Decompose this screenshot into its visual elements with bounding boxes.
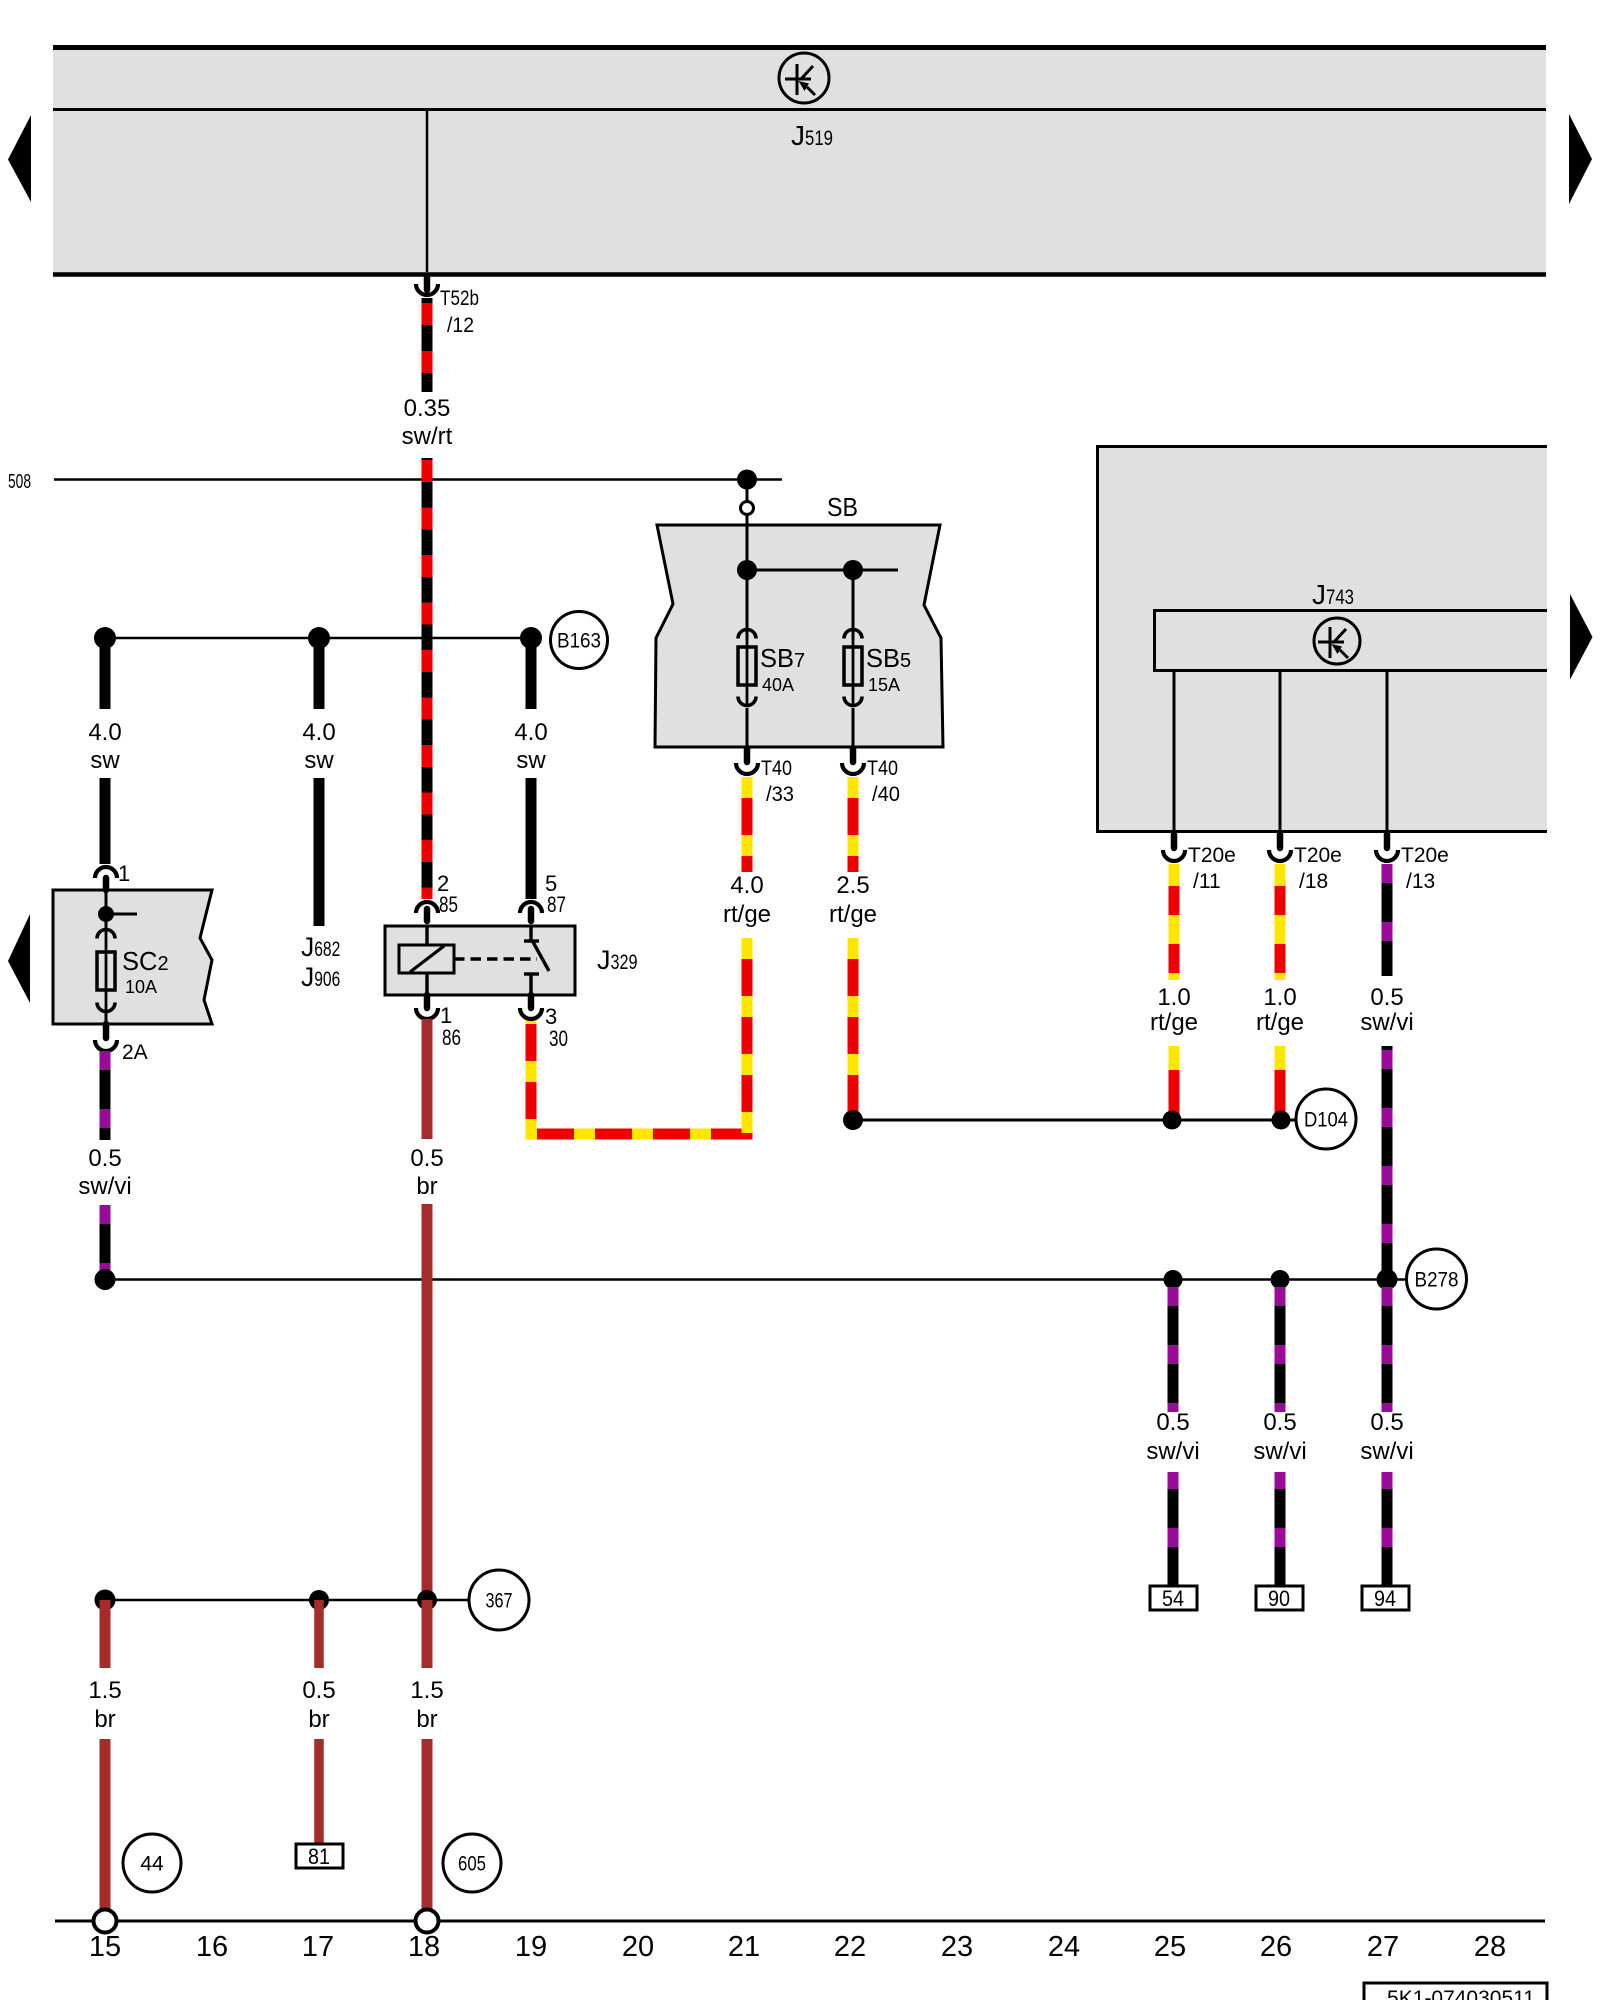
bus/continuation symbol in J743 [1314,618,1360,664]
svg-text:/33: /33 [766,783,794,806]
node 367 wire [105,1599,469,1602]
svg-text:54: 54 [1162,1586,1184,1611]
pin 3/30 connector of J329 [528,995,535,1008]
wire 1.0 rt/ge pin 18 lower segment [1275,1046,1286,1120]
wire 1.5 br (left) lower segment [100,1739,111,1910]
svg-text:0.5: 0.5 [302,1677,335,1704]
svg-text:21: 21 [728,1931,760,1963]
node 508 wire [54,478,782,481]
svg-text:rt/ge: rt/ge [829,901,877,928]
internal wire J743 pin 18 [1279,672,1282,833]
svg-text:0.5: 0.5 [88,1145,121,1172]
ground designation circle 605 [443,1834,501,1892]
svg-text:D104: D104 [1304,1108,1348,1131]
fuse panel SB (torn-edge box) [655,525,943,747]
inner unit bar of J743 [1153,609,1547,672]
svg-text:15: 15 [89,1931,121,1963]
svg-text:0.5: 0.5 [1370,984,1403,1011]
wire SB5 fuse to box edge [852,708,855,749]
fuse SB5 15A [852,628,855,707]
svg-text:1: 1 [118,861,130,886]
relay actuation dashed link [454,957,537,960]
svg-text:20: 20 [622,1931,654,1963]
svg-text:87: 87 [547,892,566,917]
svg-text:B163: B163 [557,629,601,652]
wire 4.0 sw (right) upper segment [526,638,537,709]
svg-text:85: 85 [439,892,458,917]
terminal box 54 [1150,1586,1197,1610]
relay switch contact [529,926,532,941]
svg-text:367: 367 [486,1589,513,1612]
svg-text:sw/vi: sw/vi [1253,1438,1306,1465]
connection point (open circle) [741,502,754,515]
wire 0.5 sw/vi pin 13 upper segment [1382,864,1393,976]
svg-text:0.5: 0.5 [410,1145,443,1172]
svg-text:94: 94 [1374,1586,1396,1611]
svg-text:1.5: 1.5 [410,1677,443,1704]
node circle D104 [1296,1089,1356,1149]
svg-text:18: 18 [408,1931,440,1963]
wire 0.5 sw/vi to terminal 54 lower [1168,1472,1179,1586]
wire 4.0 sw (left) upper segment [100,638,111,709]
bus/continuation symbol in J519 [779,53,829,103]
svg-text:2A: 2A [122,1041,148,1064]
wire 0.35 sw/rt lower segment [422,458,433,899]
svg-text:sw/vi: sw/vi [1360,1009,1413,1036]
bus rail inside SB [746,525,749,640]
junction B278 left [95,1269,116,1290]
svg-text:/12: /12 [447,314,474,337]
svg-text:1.0: 1.0 [1263,984,1296,1011]
wire 0.5 br lower segment [422,1204,433,1600]
svg-text:T40: T40 [761,757,792,780]
svg-text:4.0: 4.0 [514,719,547,746]
svg-text:br: br [416,1706,437,1733]
wire 4.0 sw (middle) upper segment [314,638,325,709]
wire 1.5 br (right) upper segment [422,1600,433,1668]
svg-text:0.35: 0.35 [404,395,451,422]
junction on node 508 [737,470,757,490]
junction D104 pin18 wire [1272,1111,1291,1130]
connector T40/40 [850,748,857,762]
wire 0.5 sw/vi pin 13 middle segment [1382,1046,1393,1280]
connector T20e/13 [1384,834,1391,848]
svg-text:90: 90 [1268,1586,1290,1611]
svg-text:rt/ge: rt/ge [1150,1009,1198,1036]
svg-text:sw: sw [516,747,546,774]
connector T20e/11 [1171,834,1178,848]
wire 0.5 sw/vi (left) lower segment [100,1205,111,1280]
svg-text:sw/vi: sw/vi [1146,1438,1199,1465]
svg-text:19: 19 [515,1931,547,1963]
diagram number plate 5K1-074030511 [1364,1983,1547,2000]
svg-text:rt/ge: rt/ge [723,901,771,928]
junction 367 right [417,1590,437,1610]
svg-text:br: br [94,1706,115,1733]
svg-text:1.5: 1.5 [88,1677,121,1704]
node B278 wire [105,1278,1407,1281]
pin 2/85 connector of J329 [416,902,438,913]
node D104 wire [853,1119,1296,1122]
svg-text:5K1-074030511: 5K1-074030511 [1387,1987,1535,2000]
terminal box 90 [1256,1586,1303,1610]
svg-text:15A: 15A [868,675,900,695]
connector T20e/18 [1277,834,1284,848]
svg-text:0.5: 0.5 [1156,1409,1189,1436]
svg-text:sw: sw [90,747,120,774]
svg-text:17: 17 [302,1931,334,1963]
svg-text:sw/vi: sw/vi [1360,1438,1413,1465]
wire 0.5 br upper segment [422,1019,433,1139]
svg-text:81: 81 [308,1844,330,1869]
svg-text:16: 16 [196,1931,228,1963]
wire 4.0 sw (left) lower segment [100,778,111,864]
control unit J743 (mechatronic unit box) [1096,445,1547,833]
wire 4.0 sw (middle) lower segment [314,778,325,926]
wire 0.35 sw/rt upper segment [422,298,433,392]
svg-text:/13: /13 [1406,870,1435,893]
wire 0.5 br (middle) upper segment [314,1600,324,1668]
svg-text:86: 86 [442,1025,461,1050]
wire 0.5 sw/vi to terminal 94 upper [1382,1280,1393,1412]
svg-text:23: 23 [941,1931,973,1963]
svg-text:2.5: 2.5 [836,872,869,899]
svg-text:T20e: T20e [1188,844,1236,867]
node circle 367 [469,1570,529,1630]
svg-text:sw: sw [304,747,334,774]
wire 1.0 rt/ge pin 18 upper segment [1275,864,1286,980]
svg-text:/11: /11 [1193,870,1221,893]
relay J329 box [385,926,575,995]
svg-text:/40: /40 [872,783,900,806]
internal wire J743 pin 13 [1386,672,1389,833]
junction B278 wire 54 [1164,1270,1183,1289]
svg-text:605: 605 [458,1852,486,1875]
svg-text:rt/ge: rt/ge [1256,1009,1304,1036]
svg-text:10A: 10A [125,977,157,997]
svg-text:27: 27 [1367,1931,1399,1963]
wire 0.5 sw/vi to terminal 54 upper [1168,1280,1179,1412]
svg-text:B278: B278 [1415,1268,1459,1291]
terminal box 81 [296,1844,343,1868]
svg-text:4.0: 4.0 [730,872,763,899]
wire 1.0 rt/ge pin 11 lower segment [1169,1046,1180,1120]
svg-text:SB7: SB7 [760,645,805,673]
wire 2.5 rt/ge lower segment [848,938,859,1120]
node B163 wire [105,637,538,640]
wire 1.5 br (left) upper segment [100,1600,111,1668]
wire 1.5 br (right) lower segment [422,1739,433,1910]
continuation arrow left (J519) [8,115,31,202]
svg-text:4.0: 4.0 [88,719,121,746]
svg-text:508: 508 [8,471,31,493]
wire 0.5 sw/vi to terminal 90 upper [1275,1280,1286,1412]
wire 4.0 rt/ge routed to relay pin 30 (L shape) [531,938,747,1134]
wire 4.0 sw (right) lower segment [526,778,537,899]
junction D104 pin11 wire [1163,1111,1182,1130]
fuse SB7 40A [746,628,749,707]
wire 1.0 rt/ge pin 11 upper segment [1169,864,1180,980]
svg-text:T40: T40 [867,757,898,780]
junction 367 middle [309,1590,329,1610]
control unit J519 (onboard supply control unit box) [53,45,1546,276]
junction B163 wire 2 [308,627,330,649]
svg-text:SB5: SB5 [866,645,911,673]
svg-text:1.0: 1.0 [1157,984,1190,1011]
svg-text:40A: 40A [762,675,794,695]
svg-text:44: 44 [140,1852,164,1875]
junction B278 wire 94 [1377,1269,1398,1290]
junction D104 at 2.5 wire [843,1110,863,1130]
junction SB rail 1 [737,560,757,580]
svg-text:24: 24 [1048,1931,1080,1963]
svg-text:T20e: T20e [1401,844,1449,867]
wire SB7 fuse to box edge [746,708,749,749]
svg-text:/18: /18 [1299,870,1328,893]
internal wire J743 pin 11 [1173,672,1176,833]
continuation arrow right (J519) [1569,114,1592,204]
svg-text:sw/rt: sw/rt [402,423,453,450]
fuse holder SC2 (torn-edge box) [53,890,212,1024]
terminal box 94 [1362,1586,1409,1610]
wire 0.5 br (middle) lower segment [314,1739,324,1844]
fuse rail tap inside SC2 [105,890,108,928]
junction SB rail 2 [843,560,863,580]
svg-text:25: 25 [1154,1931,1186,1963]
wire 4.0 rt/ge from SB7 upper segment [742,777,753,872]
node circle B278 [1407,1249,1467,1309]
connector 2A of SC2 [103,1024,110,1038]
svg-text:26: 26 [1260,1931,1292,1963]
bottom rail line [55,1920,1545,1923]
svg-text:SB: SB [827,494,858,522]
svg-text:0.5: 0.5 [1370,1409,1403,1436]
node circle B163 [551,612,608,669]
continuation arrow right (J743) [1570,594,1593,680]
wire 0.5 sw/vi (left) upper segment [100,1051,111,1140]
connector T40/33 [744,748,751,762]
ground connection point 15 [94,1910,117,1933]
svg-text:br: br [416,1173,437,1200]
svg-text:sw/vi: sw/vi [78,1173,131,1200]
wire 2.5 rt/ge from SB5 upper segment [848,777,859,872]
wire 0.5 sw/vi to terminal 90 lower [1275,1472,1286,1586]
wire inside J519 to pin 12 [426,111,429,272]
continuation arrow left (SC2) [8,914,30,1003]
junction B163 wire 1 [94,627,116,649]
wire 0.5 sw/vi to terminal 94 lower [1382,1472,1393,1586]
junction 367 left [95,1590,116,1611]
ground connection point 18 [416,1910,439,1933]
svg-text:br: br [308,1706,329,1733]
svg-text:30: 30 [549,1026,568,1051]
pin 5/87 connector of J329 [520,902,542,913]
svg-text:T20e: T20e [1294,844,1342,867]
svg-text:28: 28 [1474,1931,1506,1963]
junction B163 wire 3 [520,627,542,649]
ground designation circle 44 [123,1834,181,1892]
grid numbers 15-28 [89,1931,1506,1963]
fuse SC2 10A [105,928,108,1013]
junction B278 wire 90 [1271,1270,1290,1289]
svg-text:SC2: SC2 [122,948,169,976]
pin 1/86 connector of J329 [424,995,431,1008]
svg-text:22: 22 [834,1931,866,1963]
svg-text:T52b: T52b [440,287,479,310]
svg-text:0.5: 0.5 [1263,1409,1296,1436]
connector T52b/12 [424,277,431,290]
relay coil [399,945,454,973]
wire from node 508 to SB [746,479,749,502]
svg-text:4.0: 4.0 [302,719,335,746]
connector pin 1 of SC2 [95,867,117,878]
